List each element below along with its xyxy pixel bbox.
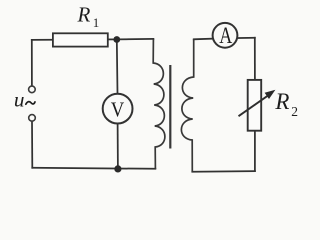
- svg-text:R: R: [274, 89, 289, 114]
- svg-text:V: V: [111, 97, 125, 121]
- wire R2 box bottom down to corner: [254, 131, 256, 171]
- terminal circle top: [29, 86, 36, 93]
- node junction dot top: [113, 36, 120, 43]
- svg-text:u: u: [14, 87, 25, 111]
- voltmeter V: [103, 94, 133, 124]
- svg-text:R: R: [77, 2, 91, 26]
- resistor R1: [53, 33, 108, 46]
- transformer primary coil: [153, 39, 165, 169]
- wire left vertical upper (corner to top terminal): [31, 40, 33, 86]
- label tilde of u~: [26, 102, 35, 105]
- node junction dot bottom: [114, 165, 121, 172]
- wire bottom of secondary loop: [192, 170, 255, 173]
- rheostat arrow head: [265, 90, 276, 99]
- wire voltmeter branch lower: [117, 123, 119, 168]
- wire left vertical lower (bottom terminal to bottom-left corner): [31, 121, 33, 168]
- wire secondary loop top (coil corner to ammeter to R2 corner): [194, 38, 255, 40]
- svg-text:1: 1: [93, 15, 100, 30]
- transformer core: [169, 65, 171, 149]
- terminal circle bottom: [29, 115, 36, 122]
- ammeter A: [213, 23, 238, 48]
- wire primary loop top (corner to R1 to junction to coil corner): [32, 39, 154, 40]
- wire bottom of primary loop: [32, 168, 155, 169]
- rheostat R2 box: [248, 80, 262, 131]
- rheostat arrow shaft: [239, 95, 269, 116]
- wire ammeter corner down to R2 box: [254, 38, 256, 80]
- svg-text:2: 2: [291, 104, 298, 119]
- transformer secondary coil: [181, 39, 193, 172]
- svg-text:A: A: [219, 23, 232, 49]
- wire voltmeter branch upper: [116, 40, 119, 94]
